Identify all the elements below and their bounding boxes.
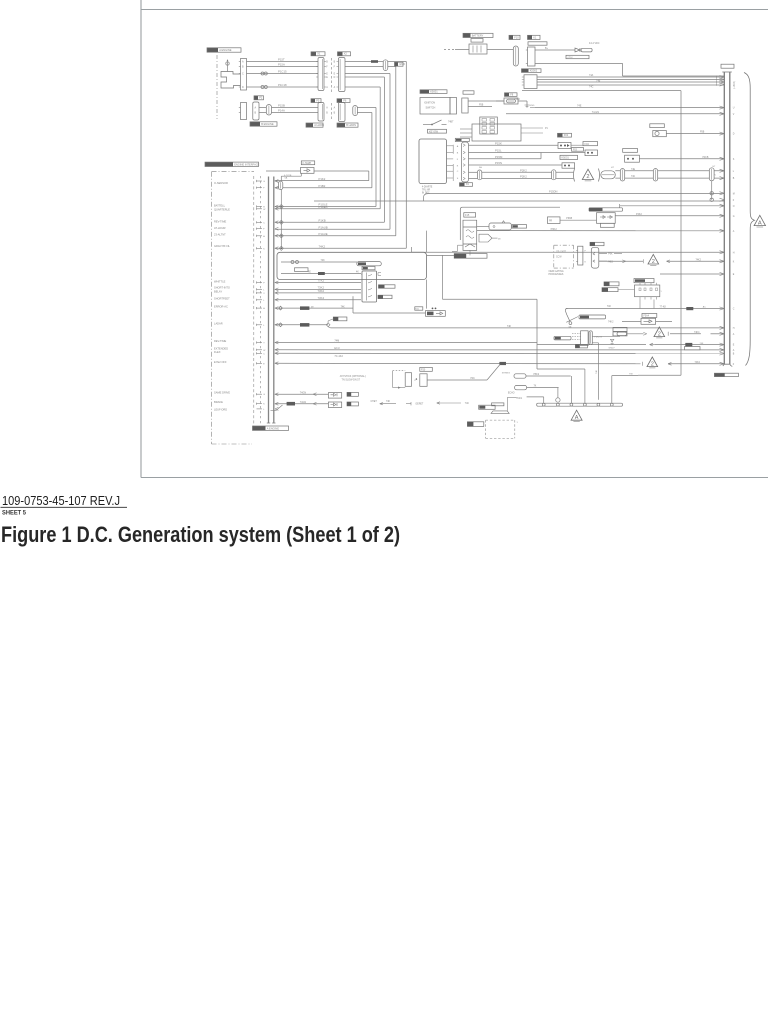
wire 73K2 b xyxy=(275,292,361,294)
svg-text:C: C xyxy=(263,353,265,355)
bus pin top xyxy=(720,83,725,85)
svg-text:74K2: 74K2 xyxy=(696,259,702,261)
thermal switch S6 xyxy=(565,309,570,322)
label B-HARNESS mid xyxy=(454,254,487,259)
page frame bottom border xyxy=(141,477,768,479)
wire K6 drop 2 xyxy=(653,300,655,309)
svg-text:A: A xyxy=(334,86,336,89)
label P2 xyxy=(254,96,258,100)
wire row3 left stub xyxy=(507,396,516,398)
svg-text:74GN: 74GN xyxy=(300,391,307,394)
joystick pot body xyxy=(405,373,411,387)
svg-text:P6K: P6K xyxy=(608,254,613,256)
wire X3 run 3 xyxy=(469,158,542,160)
wire K5002 run X xyxy=(537,84,724,86)
svg-text:B: B xyxy=(255,112,257,115)
svg-text:BELAY: BELAY xyxy=(214,290,222,294)
wire run B to bus xyxy=(615,177,724,179)
svg-text:PROCESSES: PROCESSES xyxy=(549,273,564,276)
svg-text:7C-1K2: 7C-1K2 xyxy=(334,355,343,358)
wire run K 74K2 xyxy=(599,260,644,262)
wire solenoid feed xyxy=(427,254,460,256)
label X2 xyxy=(338,52,343,56)
label B HARNESS X1 xyxy=(337,123,345,127)
wire 74E run xyxy=(535,107,724,109)
label A HARNESS X1 xyxy=(306,123,313,127)
svg-text:P4K: P4K xyxy=(471,378,476,380)
label X3 xyxy=(460,183,465,187)
connector X7 xyxy=(591,247,599,268)
switch S6 lever xyxy=(566,317,578,323)
diode D1 xyxy=(575,48,580,52)
splice diamond xyxy=(279,246,283,250)
bus pin O xyxy=(720,204,725,206)
pin G interface connector xyxy=(257,180,263,182)
svg-text:PR: PR xyxy=(549,221,553,223)
svg-text:B HARN: B HARN xyxy=(346,123,356,127)
wire X1 run 3 xyxy=(345,73,390,75)
pin B X1 xyxy=(316,61,318,63)
warning triangle A harness xyxy=(754,215,765,225)
svg-text:U: U xyxy=(733,108,735,110)
svg-text:ENGINE INTERFACE: ENGINE INTERFACE xyxy=(234,162,259,166)
svg-text:P15DN: P15DN xyxy=(549,190,557,194)
label K5002 xyxy=(522,69,529,73)
svg-text:B: B xyxy=(326,113,328,115)
svg-text:74K: 74K xyxy=(700,343,704,345)
svg-text:2: 2 xyxy=(658,331,661,337)
svg-text:75K: 75K xyxy=(629,374,633,376)
svg-text:73K2: 73K2 xyxy=(318,289,325,293)
horn cone xyxy=(491,411,509,414)
wire Q1 out xyxy=(592,335,620,337)
svg-text:A ENGINE: A ENGINE xyxy=(219,48,232,52)
svg-text:F10: F10 xyxy=(514,35,519,39)
label KEYSW xyxy=(428,129,447,133)
svg-text:H: H xyxy=(733,252,735,254)
bus pin H xyxy=(720,326,725,328)
tick marks top bus group xyxy=(716,76,718,78)
svg-text:P5B: P5B xyxy=(700,132,705,134)
wire K5002 run U xyxy=(537,76,724,78)
wire battery negative dash xyxy=(444,49,455,51)
pin P interface connector xyxy=(257,282,263,284)
svg-text:E: E xyxy=(733,345,735,347)
label K5005 out 2 xyxy=(378,295,392,298)
svg-text:TN SLOW-DN 5T: TN SLOW-DN 5T xyxy=(342,379,361,382)
svg-text:E: E xyxy=(263,363,265,365)
svg-text:K5002: K5002 xyxy=(530,68,538,72)
wire ECU right 2 xyxy=(521,132,543,134)
svg-text:P4K2: P4K2 xyxy=(636,213,643,216)
svg-text:9-14 VDC: 9-14 VDC xyxy=(589,42,600,45)
wire F06 to bus xyxy=(639,158,724,160)
wire riser 442 xyxy=(442,255,444,299)
svg-text:P1KB: P1KB xyxy=(319,219,326,223)
component M4 xyxy=(489,223,511,230)
wire X7 run 2 stub xyxy=(599,260,607,262)
cable break parens left xyxy=(574,169,575,182)
svg-text:IGNITION: IGNITION xyxy=(424,102,435,105)
wire P4K diagonal xyxy=(427,379,487,381)
label BATTERY xyxy=(463,33,471,37)
dash-dot boundary A-ENGINE xyxy=(216,55,218,119)
relay K1 body xyxy=(528,47,536,66)
wire 75K link xyxy=(612,375,638,377)
svg-text:74K: 74K xyxy=(321,259,326,262)
joystick switch body xyxy=(420,374,427,387)
dark tag on X1 wire 1 xyxy=(371,60,378,63)
svg-text:G: G xyxy=(733,216,735,218)
K5003 pin stubs xyxy=(447,145,454,147)
label F03 xyxy=(572,148,584,152)
svg-text:23-ALTNT: 23-ALTNT xyxy=(214,233,226,237)
svg-text:ECHO: ECHO xyxy=(508,392,515,394)
connector X5 dashed column xyxy=(253,176,255,430)
wire 537 to riser 585 xyxy=(537,368,585,370)
inline pill X11 xyxy=(552,170,556,180)
svg-text:E: E xyxy=(334,74,336,76)
ground bar GB1 xyxy=(537,403,623,406)
pin G interface connector xyxy=(257,393,263,395)
svg-text:P6KB: P6KB xyxy=(566,218,572,220)
mating line P5 xyxy=(330,103,332,121)
joystick bottom link xyxy=(393,387,406,389)
horn body GND xyxy=(479,405,495,409)
svg-text:109-0753-45-107 REV.J: 109-0753-45-107 REV.J xyxy=(2,493,120,508)
bus pin top xyxy=(720,78,725,80)
wire ECU left 1 xyxy=(460,128,472,130)
label P6 xyxy=(337,99,342,103)
splice riser on bus xyxy=(280,190,282,249)
svg-text:A: A xyxy=(263,235,265,238)
bus pin M xyxy=(720,192,725,194)
wire X3 run 6 xyxy=(469,178,478,180)
pin F interface connector xyxy=(257,228,263,230)
label bus top xyxy=(721,64,734,68)
wire ignition out 1 xyxy=(468,100,504,102)
svg-text:74BT: 74BT xyxy=(448,122,454,124)
wire P6KB xyxy=(560,219,597,221)
connector P5 half B xyxy=(339,103,346,122)
wire P15B xyxy=(259,107,266,109)
wire F8 to GND xyxy=(518,100,527,102)
warning triangle A ground xyxy=(571,410,582,420)
resistor pill row1 xyxy=(514,374,526,378)
wire 74K inside box A xyxy=(281,261,357,263)
wire BRAKE row xyxy=(275,403,329,405)
vertical riser 611 xyxy=(611,376,613,404)
svg-text:FLEX: FLEX xyxy=(214,350,221,354)
svg-text:C: C xyxy=(263,222,265,224)
wire K-TEMP drop xyxy=(300,173,302,176)
svg-text:5A: 5A xyxy=(479,166,482,169)
svg-text:E: E xyxy=(733,274,735,276)
svg-text:O: O xyxy=(733,206,735,208)
svg-text:P20: P20 xyxy=(421,369,426,372)
pin A interface connector xyxy=(257,235,263,237)
bus pin C xyxy=(720,307,725,309)
svg-text:SHORT-INTO: SHORT-INTO xyxy=(214,286,230,290)
wire ECU left 2 xyxy=(460,132,472,134)
bus pin E xyxy=(720,272,725,274)
bus pin F xyxy=(720,198,725,200)
svg-text:74C: 74C xyxy=(631,176,636,178)
svg-text:SHEET 5: SHEET 5 xyxy=(2,509,26,516)
svg-text:C: C xyxy=(733,309,735,311)
wire X1 run 6 xyxy=(357,107,376,109)
label box F8 left xyxy=(463,91,474,94)
harness box outline right xyxy=(522,90,681,92)
label K5004 xyxy=(415,307,423,310)
svg-text:74K4: 74K4 xyxy=(694,332,700,334)
svg-text:A: A xyxy=(334,107,336,110)
wire X3 run 4 to K5001 splice xyxy=(469,164,563,166)
bus pin B xyxy=(720,177,725,179)
svg-text:L: L xyxy=(263,325,265,327)
svg-text:P4KB: P4KB xyxy=(703,157,709,159)
label strip BATT B+ xyxy=(566,55,589,58)
svg-text:4E: 4E xyxy=(308,272,311,274)
label strip box A right xyxy=(357,262,382,266)
svg-text:HT: HT xyxy=(611,167,615,169)
wire row2 xyxy=(527,387,559,389)
pin L interface connector xyxy=(257,324,263,326)
horn H1 xyxy=(653,131,667,137)
svg-text:74K: 74K xyxy=(386,401,391,403)
wire ECU long xyxy=(275,349,725,351)
wire X1 run 1 xyxy=(345,61,406,63)
component F06 box xyxy=(625,155,640,162)
label strip box A right 2 xyxy=(362,266,375,269)
svg-text:A: A xyxy=(733,230,735,233)
svg-text:ECU: ECU xyxy=(334,347,339,350)
svg-text:74K2: 74K2 xyxy=(695,362,701,364)
svg-text:X3: X3 xyxy=(466,182,470,186)
svg-text:74M: 74M xyxy=(334,340,339,343)
svg-text:B: B xyxy=(334,113,336,115)
svg-text:WHITTLE: WHITTLE xyxy=(214,280,226,284)
svg-text:N: N xyxy=(714,174,716,176)
svg-text:77K2: 77K2 xyxy=(318,279,325,283)
vertical drop 570 xyxy=(570,376,572,403)
svg-text:KEYSW: KEYSW xyxy=(429,130,439,133)
svg-text:REV-TIME: REV-TIME xyxy=(214,339,227,343)
svg-text:REV-TIME: REV-TIME xyxy=(214,220,227,224)
bus pin A xyxy=(720,348,725,350)
sensor S1 bulb xyxy=(226,62,229,65)
svg-text:2: 2 xyxy=(651,361,654,367)
pin K interface connector xyxy=(257,247,263,249)
svg-text:F: F xyxy=(326,67,328,69)
bus pin top xyxy=(720,80,725,82)
bus pin U xyxy=(720,106,725,108)
mating line X1 xyxy=(330,58,332,92)
svg-text:F: F xyxy=(733,364,735,366)
svg-text:74C: 74C xyxy=(589,86,594,89)
label F02 xyxy=(558,133,563,137)
svg-text:EXTENDED: EXTENDED xyxy=(214,346,228,350)
inline pill on X1 top wires xyxy=(383,60,388,71)
bus pin D xyxy=(720,132,725,134)
relay socket K6 body xyxy=(635,285,660,297)
label OEM strip xyxy=(590,242,604,245)
wire X15 branch down xyxy=(711,181,713,200)
svg-text:F5A4: F5A4 xyxy=(644,315,650,318)
transistor module Q1 xyxy=(581,331,589,346)
pin Y interface connector xyxy=(257,342,263,344)
svg-text:74K: 74K xyxy=(596,370,598,374)
wire row1 to v570 xyxy=(526,375,571,377)
ignition switch body xyxy=(420,98,450,115)
component F5A4 box xyxy=(641,318,656,324)
wire LEUF diagonal xyxy=(271,410,277,412)
svg-text:CHET: CHET xyxy=(371,401,378,403)
svg-text:P1B2: P1B2 xyxy=(319,184,326,188)
svg-text:CCW: CCW xyxy=(556,257,562,259)
svg-text:P15K: P15K xyxy=(495,141,502,145)
pin F interface connector xyxy=(257,187,263,189)
connector J1 xyxy=(241,59,247,91)
svg-text:P4K1: P4K1 xyxy=(517,398,523,400)
wire F5A4 out xyxy=(656,320,672,322)
wire M5 stub xyxy=(492,237,498,239)
wire 4E into relay top pin xyxy=(361,273,362,275)
svg-text:74GN: 74GN xyxy=(300,401,307,404)
svg-text:74A: 74A xyxy=(589,74,594,77)
pin E X1 xyxy=(316,76,318,78)
svg-text:A: A xyxy=(242,61,244,64)
label P5 xyxy=(311,99,315,103)
dash-dot boundary engine interface xyxy=(212,171,255,173)
svg-text:L: L xyxy=(263,289,265,291)
label K6 b xyxy=(602,288,618,292)
label box opt xyxy=(467,422,483,427)
ECU connector pin block xyxy=(480,117,498,134)
relay K5002 body xyxy=(524,75,537,89)
label RESIST xyxy=(579,315,606,319)
svg-text:V: V xyxy=(733,114,735,116)
svg-text:(-15V4): (-15V4) xyxy=(733,81,736,89)
svg-text:BATTERY: BATTERY xyxy=(472,33,484,37)
label B ENGINE xyxy=(250,122,260,126)
wire P1C15 xyxy=(247,73,319,75)
svg-text:4K: 4K xyxy=(356,272,359,274)
svg-text:P2K2: P2K2 xyxy=(520,169,527,173)
label K1 xyxy=(528,35,533,39)
label GND M2 xyxy=(347,392,358,396)
connector X6 xyxy=(578,246,583,265)
bus pin K xyxy=(720,260,725,262)
wire ERROR-AC row xyxy=(275,307,353,309)
svg-text:O-SENSOR: O-SENSOR xyxy=(214,181,228,185)
relay socket K6 header xyxy=(634,279,654,283)
svg-text:P5B: P5B xyxy=(479,105,484,107)
key switch S5 lever xyxy=(423,124,432,126)
wire P1C18 xyxy=(247,86,319,88)
svg-text:E: E xyxy=(457,165,459,167)
wire X3 run 2 to F03 xyxy=(469,152,586,154)
svg-text:K5001: K5001 xyxy=(430,89,438,93)
wire 7C-1K2 long xyxy=(275,352,725,354)
page frame left border xyxy=(140,0,142,478)
label IGNITION SW xyxy=(420,90,429,94)
bus pin F xyxy=(720,362,725,364)
svg-text:S: S xyxy=(733,159,735,161)
svg-text:D: D xyxy=(242,86,244,89)
page frame top border xyxy=(141,9,768,11)
component PR box xyxy=(548,217,561,224)
svg-text:A: A xyxy=(575,415,579,421)
wire horn drop xyxy=(506,397,508,411)
wire 426 vertical lower xyxy=(426,280,428,309)
wire row K tail xyxy=(667,260,725,262)
splice dots K5004 xyxy=(432,308,434,310)
wire X1 run 4 xyxy=(345,76,384,78)
bus pin V xyxy=(720,112,725,114)
pin B interface connector xyxy=(257,206,263,208)
junction tick 74E xyxy=(530,107,535,109)
connector X1 half A xyxy=(318,58,324,91)
wire K-TEMP left xyxy=(266,170,301,172)
wire K6 left stub xyxy=(618,289,635,291)
splice diamond xyxy=(279,234,283,238)
wire P9K2 long xyxy=(477,230,725,232)
wire K5002 run V xyxy=(537,79,724,81)
svg-text:W: W xyxy=(263,209,266,211)
wire X1 run 7 xyxy=(357,112,372,114)
svg-text:2: 2 xyxy=(586,174,589,180)
svg-text:K: K xyxy=(263,248,265,250)
svg-text:F: F xyxy=(263,188,265,190)
label K5005 out 1 xyxy=(379,285,396,288)
wire K2 out 1 xyxy=(477,226,489,228)
ECU body xyxy=(472,124,521,141)
svg-text:BRAKE: BRAKE xyxy=(214,400,223,404)
svg-text:F04: F04 xyxy=(585,143,590,146)
inline connector pill X12 horizontal xyxy=(601,171,616,179)
label P20 xyxy=(420,367,433,371)
wire row3 xyxy=(527,396,544,398)
battery BT1 xyxy=(469,44,487,54)
label GND7 xyxy=(554,336,571,340)
svg-text:P15L: P15L xyxy=(495,149,502,153)
svg-text:ERROR-AC: ERROR-AC xyxy=(214,305,228,309)
label F06 xyxy=(623,149,638,153)
svg-text:L: L xyxy=(263,409,265,411)
svg-text:D: D xyxy=(733,134,735,136)
riser 585 to ground bar xyxy=(584,369,586,403)
inline pill X14 xyxy=(653,169,657,181)
svg-text:7K: 7K xyxy=(534,386,537,388)
interface box K5003 xyxy=(419,139,447,184)
svg-text:P15T: P15T xyxy=(278,58,285,62)
bus pin A xyxy=(720,332,725,334)
wire ERROR-AC step down xyxy=(352,296,354,313)
svg-text:A: A xyxy=(457,145,459,148)
wire H1 to bus xyxy=(666,133,724,135)
svg-text:D: D xyxy=(334,77,336,79)
wire LADAR row xyxy=(275,324,328,326)
svg-text:S: S xyxy=(457,178,459,180)
label F8 xyxy=(505,93,510,97)
splice box F03 xyxy=(585,150,598,156)
svg-text:P6: P6 xyxy=(343,98,347,102)
wire X3 run 1 to F04 xyxy=(469,144,559,146)
solenoid left hook wire xyxy=(452,250,458,252)
splice circles box A xyxy=(291,261,294,264)
resistor pill row2 xyxy=(515,385,527,389)
